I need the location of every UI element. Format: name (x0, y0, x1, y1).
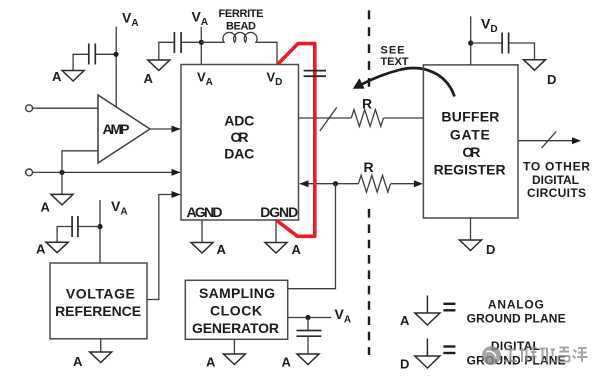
wire cap to ground (159, 42, 175, 60)
wire input 2 to ADC (33, 171, 180, 173)
wire lower data line right (391, 183, 421, 185)
arrow into ADC (reference) (172, 191, 181, 198)
wire cap to ground (73, 54, 89, 70)
node junction dot (305, 315, 310, 320)
svg-text:A: A (36, 242, 46, 257)
svg-text:GATE: GATE (450, 127, 490, 143)
svg-text:OR: OR (231, 129, 249, 145)
arrow into ADC (amp out) (172, 126, 181, 133)
svg-text:A: A (217, 242, 227, 257)
wire VA down to ADC VA pin (200, 27, 202, 65)
svg-text:R: R (362, 96, 372, 112)
wire clock ground (233, 339, 235, 354)
watermark logo circle (482, 346, 501, 365)
wire cap to ground (307, 336, 309, 354)
svg-text:CLOCK: CLOCK (210, 303, 262, 319)
svg-text:TEXT: TEXT (381, 56, 409, 68)
arrow into ADC (lower line) (300, 180, 309, 187)
node junction dot (clock tap) (333, 181, 338, 186)
bus slash output (542, 131, 557, 148)
wire VD down to buffer (470, 16, 472, 65)
wire junction up to amp lower input (62, 151, 98, 173)
svg-text:R: R (364, 159, 374, 175)
wire clock tap down to sampling clock generator (288, 184, 336, 289)
op-amp AMP (98, 95, 150, 163)
wire VA down to reference box (99, 200, 101, 263)
svg-text:SAMPLING: SAMPLING (199, 285, 275, 301)
ground A (clock) (223, 354, 245, 365)
dashed boundary line upper segment (368, 10, 370, 87)
wire cap to node (78, 226, 100, 228)
svg-text:TO OTHER: TO OTHER (523, 160, 590, 174)
svg-text:GENERATOR: GENERATOR (192, 320, 279, 336)
svg-text:SEE: SEE (381, 44, 405, 56)
watermark chinese text strokes (504, 348, 588, 363)
svg-text:REGISTER: REGISTER (434, 161, 506, 177)
wire amp output (150, 128, 180, 130)
svg-text:ADC: ADC (224, 112, 254, 128)
arrow output (572, 137, 581, 144)
capacitor on red path (304, 71, 326, 77)
wire lower data line (300, 183, 358, 185)
svg-text:A: A (292, 242, 302, 257)
ground A (top-left cap) (62, 71, 84, 82)
ground A (ADC supply cap) (148, 60, 170, 71)
ground A (amp input) (51, 194, 73, 205)
svg-text:A: A (206, 355, 216, 370)
resistor R2 (358, 175, 390, 192)
svg-text:DIGITAL: DIGITAL (532, 173, 579, 187)
curved arrow (359, 68, 455, 96)
svg-text:A: A (73, 354, 83, 369)
svg-text:A: A (282, 355, 292, 370)
svg-text:AGND: AGND (187, 204, 223, 220)
svg-text:OR: OR (462, 144, 480, 160)
wire cap to ground (509, 43, 535, 60)
arrow into ADC (input 2) (172, 169, 181, 176)
ground A (clock cap) (297, 354, 319, 365)
wire buffer ground (470, 218, 472, 240)
ferrite bead L1 (201, 32, 277, 64)
legend digital ground symbol (415, 339, 440, 369)
buffer/register box (423, 65, 518, 218)
wire cap to VA node (95, 53, 117, 55)
bus slash upper (320, 107, 337, 131)
ground A (ref cap) (46, 242, 68, 253)
wire cap to node (181, 41, 201, 43)
red path VD to DGND (277, 44, 315, 237)
ground A (reference) (90, 352, 112, 363)
wire input 1 to amp (33, 107, 98, 109)
svg-text:A: A (52, 69, 62, 84)
wire cap to ground (57, 227, 72, 243)
wire reference output to ADC (147, 195, 180, 300)
capacitor C5 (297, 331, 322, 337)
svg-text:VOLTAGE: VOLTAGE (66, 285, 135, 301)
svg-text:ANALOG: ANALOG (488, 298, 544, 312)
ground A (DGND) (265, 243, 287, 254)
input terminal circle 2 (26, 169, 33, 176)
wire reference ground (100, 339, 102, 352)
node junction dot on input 2 (59, 170, 64, 175)
ADC/DAC box (181, 65, 299, 221)
wire clock VA (288, 317, 331, 319)
equals sign (443, 347, 455, 354)
arrow into buffer (lower line) (414, 180, 423, 187)
svg-text:A: A (41, 200, 51, 215)
svg-text:CIRCUITS: CIRCUITS (527, 186, 586, 200)
dashed boundary line lower segment (368, 209, 370, 355)
svg-text:GROUND PLANE: GROUND PLANE (467, 312, 566, 326)
wire AGND pin down (201, 220, 203, 243)
node junction dot (97, 224, 102, 229)
svg-text:DGND: DGND (260, 204, 298, 220)
node junction dot (113, 52, 118, 57)
svg-text:AMP: AMP (103, 121, 130, 137)
legend analog ground symbol (415, 296, 440, 326)
capacitor C4 (72, 216, 78, 237)
node junction dot (199, 40, 204, 45)
svg-text:A: A (144, 71, 154, 86)
wire VA down to amp (115, 27, 117, 108)
wire junction down to ground (61, 172, 63, 194)
sampling clock generator box (185, 280, 287, 339)
wire DGND pin down (275, 220, 277, 243)
svg-text:D: D (400, 357, 409, 372)
node junction dot (468, 40, 473, 45)
equals sign (443, 304, 455, 311)
wire node to cap (307, 318, 309, 331)
svg-text:FERRITE: FERRITE (219, 8, 264, 20)
svg-text:REFERENCE: REFERENCE (55, 303, 141, 319)
ground A (AGND) (191, 243, 213, 254)
capacitor C3 (502, 33, 509, 54)
wire upper data line right (384, 117, 424, 119)
ground D (supply cap) (524, 60, 546, 70)
svg-text:BUFFER: BUFFER (441, 109, 499, 125)
wire node to cap (471, 42, 502, 44)
input terminal circle 1 (26, 105, 33, 112)
ground D (buffer) (460, 240, 482, 251)
capacitor C1 (89, 44, 96, 65)
voltage reference box (50, 263, 147, 339)
svg-text:BEAD: BEAD (226, 21, 256, 33)
svg-text:DAC: DAC (224, 145, 254, 161)
svg-text:D: D (486, 242, 495, 257)
svg-text:D: D (547, 72, 556, 87)
svg-text:A: A (400, 313, 410, 328)
wire upper data line (299, 117, 352, 119)
wire buffer output (518, 140, 580, 142)
resistor R1 (351, 110, 383, 127)
capacitor C2 (174, 32, 181, 53)
